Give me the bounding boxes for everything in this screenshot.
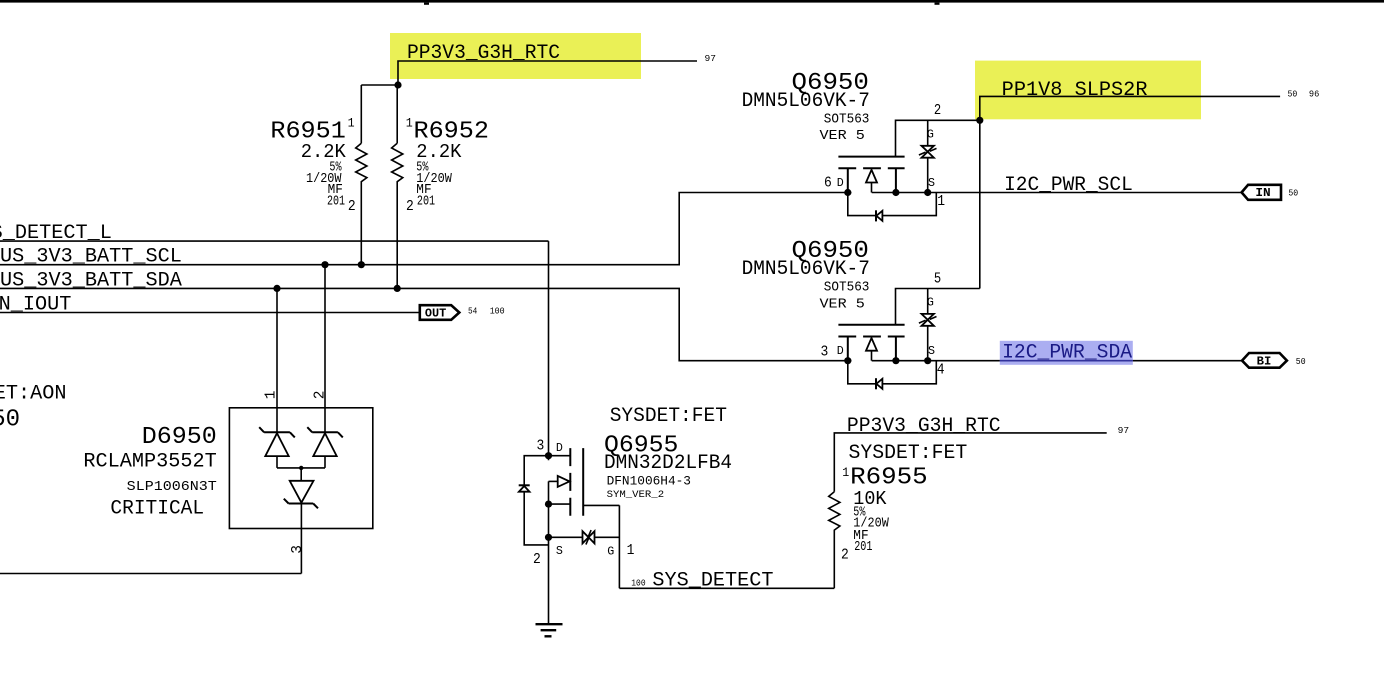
svg-text:54: 54 (468, 305, 478, 316)
resistor R6955 (829, 442, 968, 589)
body arrow (549, 480, 558, 482)
svg-text:4: 4 (937, 363, 945, 379)
source rail down to ground (548, 456, 550, 625)
wire SYS_DETECT_L (0, 240, 549, 242)
channel contacts (569, 448, 571, 516)
gate plate (582, 448, 584, 516)
svg-text:G: G (607, 545, 614, 559)
wire PP1V8_SLPS2R (980, 96, 1280, 288)
wire AON_IOUT (0, 312, 420, 314)
port BI (1242, 353, 1306, 368)
svg-text:201: 201 (327, 195, 345, 210)
junction PP1V8 node (976, 117, 983, 124)
D6950 internal node (299, 466, 303, 470)
ground (536, 624, 563, 636)
svg-text:S: S (928, 176, 935, 190)
channel contacts (838, 168, 904, 192)
port IN (1242, 185, 1299, 200)
body diode loop (524, 456, 548, 545)
svg-text:6: 6 (824, 176, 832, 192)
svg-text:BI: BI (1257, 355, 1272, 368)
svg-text:2: 2 (313, 391, 329, 400)
svg-text:I2C_PWR_SCL: I2C_PWR_SCL (1004, 174, 1133, 197)
svg-text:201: 201 (417, 195, 435, 210)
svg-text:SOT563: SOT563 (824, 111, 870, 127)
D6950 TVS diode B (pin2) (307, 427, 343, 437)
svg-text:50: 50 (1288, 89, 1298, 100)
svg-text:VER 5: VER 5 (820, 296, 865, 312)
svg-text:2: 2 (841, 547, 849, 563)
gate-source zener (549, 536, 620, 538)
svg-text:D6950: D6950 (142, 424, 217, 451)
D6950 zener (pin3) (290, 481, 314, 503)
svg-text:DMN32D2LFB4: DMN32D2LFB4 (604, 452, 732, 475)
drain contact (549, 455, 571, 457)
svg-text:G: G (927, 127, 934, 141)
pin 5 wire (gate) (896, 289, 980, 325)
svg-text:RCLAMP3552T: RCLAMP3552T (83, 451, 216, 474)
junctions (844, 189, 851, 196)
body arrow (871, 183, 873, 193)
gate-source zener (927, 120, 929, 192)
svg-text:VER 5: VER 5 (820, 128, 865, 144)
svg-text:1: 1 (937, 194, 945, 210)
svg-text:3: 3 (290, 545, 306, 554)
diode D6950 (83, 391, 372, 574)
wire SMBUS_3V3_BATT_SDA to I2C_PWR_SDA rail (0, 288, 1242, 360)
svg-text:D: D (556, 441, 563, 455)
junction SDA/R6952 (394, 285, 401, 292)
svg-text:SYM_VER_2: SYM_VER_2 (607, 490, 665, 501)
svg-text:2: 2 (406, 199, 414, 215)
svg-text:DMN5L06VK-7: DMN5L06VK-7 (742, 258, 870, 281)
resistor R6952 (392, 85, 489, 288)
svg-text:SYSDET:FET: SYSDET:FET (849, 442, 968, 465)
body diode loop (848, 193, 937, 216)
gate connection (583, 505, 619, 588)
junction drain (545, 452, 552, 459)
svg-text:DMN5L06VK-7: DMN5L06VK-7 (742, 90, 870, 113)
svg-text:OUT: OUT (425, 307, 446, 320)
gate plate (838, 324, 904, 326)
resistor R6951 (270, 85, 367, 265)
svg-text:S: S (556, 544, 563, 558)
net PP1V8_SLPS2R highlight (975, 61, 1201, 120)
svg-text:1: 1 (627, 543, 635, 559)
svg-text:SOT563: SOT563 (824, 280, 870, 296)
body diode loop (848, 361, 937, 384)
svg-text:50: 50 (1288, 188, 1298, 199)
border tick 1 (424, 3, 429, 5)
svg-text:2.2K: 2.2K (416, 141, 462, 163)
svg-text:1: 1 (406, 116, 413, 131)
svg-text:96: 96 (1309, 89, 1320, 100)
junction SCL/R6951 (358, 261, 365, 268)
svg-text:3: 3 (537, 439, 545, 455)
sheet top border (0, 0, 1384, 3)
wire D6950 pin3 to left (0, 573, 301, 575)
svg-text:DFN1006H4-3: DFN1006H4-3 (607, 474, 691, 489)
svg-text:CRITICAL: CRITICAL (110, 498, 204, 521)
svg-text:3: 3 (821, 345, 829, 361)
svg-text:2: 2 (533, 552, 541, 568)
svg-text:D: D (837, 176, 844, 190)
wire + zigzag body R6951 (356, 85, 367, 265)
wire I2C_PWR_SDA (under highlight) (1000, 360, 1133, 362)
wire + zigzag body R6952 (392, 85, 403, 288)
wire PP3V3_G3H_RTC (398, 61, 697, 85)
gate plate (838, 156, 904, 158)
net I2C_PWR_SDA highlight (1000, 341, 1133, 365)
svg-text:SLP1006N3T: SLP1006N3T (127, 479, 217, 495)
svg-text:SYSDET:FET: SYSDET:FET (610, 405, 727, 428)
svg-text:G: G (927, 296, 934, 310)
source contact (549, 503, 571, 505)
svg-text:97: 97 (1118, 425, 1130, 436)
channel contacts (838, 337, 904, 361)
svg-text:PP1V8_SLPS2R: PP1V8_SLPS2R (1002, 79, 1148, 102)
net PP3V3_G3H_RTC highlight (390, 33, 641, 79)
transistor Q6950 (upper) (742, 70, 980, 221)
svg-text:5: 5 (934, 271, 941, 287)
svg-text:1: 1 (348, 116, 355, 131)
border tick 2 (935, 3, 940, 5)
transistor Q6950 (lower) (742, 238, 980, 389)
svg-text:2.2K: 2.2K (301, 141, 347, 163)
svg-text:PP3V3_G3H_RTC: PP3V3_G3H_RTC (847, 415, 1001, 438)
D6950 internal wires (277, 408, 325, 574)
svg-text:2: 2 (934, 103, 941, 119)
svg-text:201: 201 (854, 540, 872, 555)
svg-text:IN: IN (1255, 187, 1270, 200)
junction SCL/D6950 (321, 261, 328, 268)
junctions (844, 357, 851, 364)
drain wire from SYS_DETECT_L (548, 241, 550, 456)
junction SDA/D6950 (273, 285, 280, 292)
wire D6950 pin2 (324, 265, 326, 408)
wire R6951 top link (361, 84, 398, 86)
svg-text:100: 100 (631, 577, 646, 588)
transistor Q6955 (519, 241, 732, 625)
svg-text:100: 100 (490, 305, 505, 316)
wire D6950 pin1 (276, 288, 278, 407)
port OUT (420, 305, 505, 320)
junction PP3V3 node (394, 81, 401, 88)
wire SYS_DETECT (619, 587, 834, 589)
gate-source zener (927, 289, 929, 361)
pin 2 wire (gate) (896, 120, 980, 156)
wire PP3V3_G3H_RTC right (834, 433, 1106, 492)
svg-text:S: S (928, 344, 935, 358)
svg-text:1: 1 (842, 465, 849, 480)
svg-text:SYSDET:AON: SYSDET:AON (0, 382, 67, 405)
svg-text:Q6950: Q6950 (0, 407, 20, 434)
D6950 TVS diode A (pin1) (259, 427, 295, 437)
body arrow (871, 351, 873, 361)
svg-text:D: D (837, 344, 844, 358)
svg-text:50: 50 (1296, 356, 1306, 367)
svg-text:2: 2 (348, 199, 356, 215)
svg-text:97: 97 (705, 53, 717, 64)
svg-text:SYS_DETECT: SYS_DETECT (652, 570, 773, 593)
svg-text:1: 1 (264, 391, 280, 400)
wire SMBUS_3V3_BATT_SCL to I2C_PWR_SCL rail (0, 193, 1242, 265)
